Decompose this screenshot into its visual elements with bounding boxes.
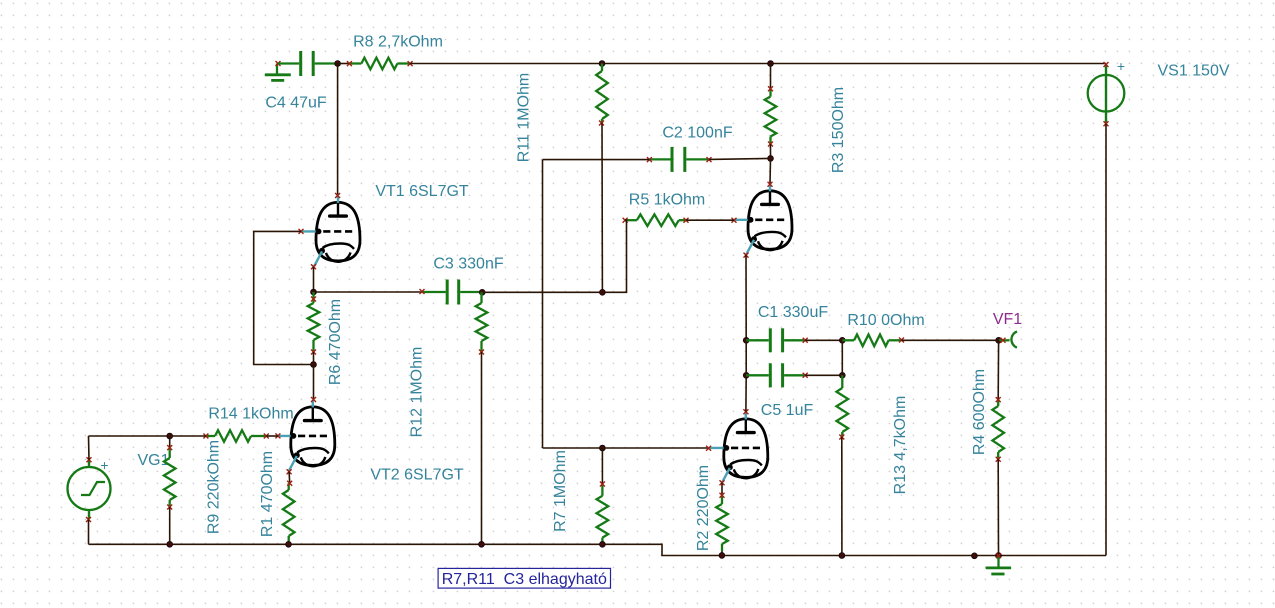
pin C5-2 [803,373,808,378]
svg-text:R2 220Ohm: R2 220Ohm [695,465,712,551]
junction node T4-grid [600,445,606,451]
wire R5 left leg [602,220,626,292]
ground GND2 [986,553,1011,574]
resistor R5 [625,214,686,226]
svg-text:VT2 6SL7GT: VT2 6SL7GT [370,467,464,484]
wire VT1 anode [337,64,339,196]
pin VT2 grid [275,433,280,438]
junction node VT2-anode [311,362,317,368]
resistor R4 [992,400,1004,460]
svg-text:C5 1uF: C5 1uF [761,402,814,419]
wire VT1 cathode [313,267,315,292]
wire link C1-C5 [841,340,843,375]
pin R9-2 [167,505,172,510]
wire R5 to T2 grid [686,219,734,221]
pin R14-2 [264,434,269,439]
svg-text:R4 600Ohm: R4 600Ohm [971,369,988,455]
junction node R11-top [599,61,605,67]
svg-text:R3 150Ohm: R3 150Ohm [830,87,847,173]
resistor R10 [842,335,901,347]
pin C3-1 [420,289,425,294]
wire C2 right [709,158,771,159]
svg-text:R10 0Ohm: R10 0Ohm [847,312,924,329]
generator VG1 [68,457,111,522]
wire VG1 top rail [89,435,206,437]
pin C2-2 [707,157,712,162]
wire [601,541,603,544]
voltage source VS1 [1088,62,1125,126]
triode VT1 [302,196,360,266]
wire [745,340,747,375]
junction node GND2 [996,553,1002,559]
wire C3 to R5 node [482,291,602,293]
triode VT2 [277,400,335,470]
pin R12-2 [479,350,484,355]
pin VT1 cathode [311,264,316,269]
wire [770,144,772,158]
wire R12 down [481,352,483,544]
svg-text:R5 1kOhm: R5 1kOhm [629,192,705,209]
pin T4 anode [743,409,748,414]
junction node R5-R11 [600,289,606,295]
pin R1-1 [287,481,292,486]
wire C5 right [805,374,842,376]
pin R6-2 [311,350,316,355]
pin VT1 anode [335,193,340,198]
wire B+ rail [410,63,1106,65]
resistor R6 [308,292,320,352]
wire [313,352,315,365]
resistor R13 [837,375,849,437]
wire [169,436,171,448]
junction node C1-left [743,337,749,343]
capacitor C2 [649,147,709,172]
svg-text:R9 220kOhm: R9 220kOhm [206,440,223,534]
resistor R7 [597,484,609,541]
pin R5-1 [623,218,628,223]
junction node VF1 [996,337,1002,343]
pin VT2 anode [311,397,316,402]
wire [288,541,290,544]
svg-text:R11 1MOhm: R11 1MOhm [516,73,533,163]
wire [770,64,772,89]
wire T4 cathode [721,483,723,495]
junction node [479,541,485,547]
pin R4-2 [996,457,1001,462]
pin R3-2 [768,142,773,147]
wire T2 anode [769,158,772,184]
wire C2 left [543,159,650,161]
wire R4 down [997,459,999,555]
junction node K1 [311,289,317,295]
pin R9-1 [167,445,172,450]
pin R3-1 [768,86,773,91]
svg-text:R12 1MOhm: R12 1MOhm [409,347,426,438]
ground GND1 [265,61,291,80]
wire T4 anode [745,375,747,411]
pin T2 grid [732,218,737,223]
junction node [600,541,606,547]
wire VS1 down [1105,124,1107,556]
svg-text:R14 1kOhm: R14 1kOhm [208,406,293,423]
pin R8-2 [408,61,413,66]
junction node R10-left [839,337,845,343]
wire VT1 grid loop [254,231,314,364]
svg-text:VT1 6SL7GT: VT1 6SL7GT [375,183,469,200]
wire bottom rail left [89,544,1107,555]
svg-text:R7 1MOhm: R7 1MOhm [552,450,569,532]
wire VT2 anode [313,365,315,400]
svg-text:+: + [100,457,108,473]
pin R5-2 [684,218,689,223]
svg-text:R7,R11 C3 elhagyható: R7,R11 C3 elhagyható [442,571,607,588]
svg-text:C2 100nF: C2 100nF [662,125,732,142]
triode U2 [734,184,792,254]
resistor R8 [349,58,410,70]
svg-text:+: + [1117,58,1125,74]
resistor R3 [765,89,777,144]
junction node R9-top [167,433,173,439]
note box R7,R11 C3 elhagyhato [438,568,610,588]
wire R10 right [902,339,999,341]
junction node [719,553,725,559]
triode U4 [710,412,768,482]
pin R6-1 [311,297,316,302]
junction node [972,553,978,559]
wire [338,63,349,65]
svg-text:C1 330uF: C1 330uF [758,304,828,321]
wire R9 down [169,507,171,544]
svg-text:R6 470Ohm: R6 470Ohm [327,299,344,385]
pin R10-2 [899,338,904,343]
junction node anode-T2 [768,156,774,162]
wire fb vertical [542,160,544,448]
resistor R12 [476,292,488,352]
resistor R11 [596,64,608,124]
capacitor C4 [278,51,338,76]
svg-text:R1 470Ohm: R1 470Ohm [259,451,276,537]
resistor R1 [283,483,295,541]
wire VT2 cathode [288,472,291,484]
capacitor C5 [746,363,805,387]
pin VT2 cathode [287,469,292,474]
svg-text:R8 2,7kOhm: R8 2,7kOhm [353,34,443,51]
pin VT1 grid [299,229,304,234]
wire R13 down [841,437,843,556]
svg-text:C3 330nF: C3 330nF [433,256,503,273]
svg-text:C4 47uF: C4 47uF [265,95,327,112]
pin T2 cathode [744,253,749,258]
junction node [167,541,173,547]
resistor R14 [206,430,266,442]
resistor R2 [716,495,728,551]
wire [266,435,278,437]
wire VG1 top [88,436,91,460]
wire VG1 bottom [88,520,90,545]
capacitor C1 [746,328,805,352]
capacitor C3 [422,280,482,305]
pin R8-1 [347,61,352,66]
junction node [286,541,292,547]
wire T2 cathode down [745,255,747,340]
pin T2 anode [768,182,773,187]
pin T4 grid [706,446,711,451]
junction node R3-top [768,61,774,67]
wire C3 left [314,291,423,293]
pin C1-2 [803,338,808,343]
pin C2-1 [647,157,652,162]
svg-text:VF1: VF1 [993,311,1022,328]
wire R4 top [997,340,999,399]
pin R14-1 [203,434,208,439]
junction node C3-R12 [479,289,485,295]
voltage pin VF1 [999,332,1017,348]
pin R4-1 [996,397,1001,402]
wire [721,551,723,555]
pin R11-2 [599,121,604,126]
wire R11 to C3 node [601,123,603,292]
pin R13-2 [839,435,844,440]
junction node R13-top [839,372,845,378]
wire fb bottom [543,447,603,449]
pin R7-1 [600,482,605,487]
junction node C4/VT1-anode [335,61,341,67]
junction node [839,553,845,559]
svg-text:R13 4,7kOhm: R13 4,7kOhm [892,396,909,495]
resistor R9 [164,448,176,507]
pin R2-1 [720,493,725,498]
wire C1 right [805,339,842,341]
pin T4 cathode [720,480,725,485]
wire [601,448,603,484]
svg-text:VS1 150V: VS1 150V [1157,63,1229,80]
junction node C5-left [743,372,749,378]
wire T4 grid [602,447,708,449]
